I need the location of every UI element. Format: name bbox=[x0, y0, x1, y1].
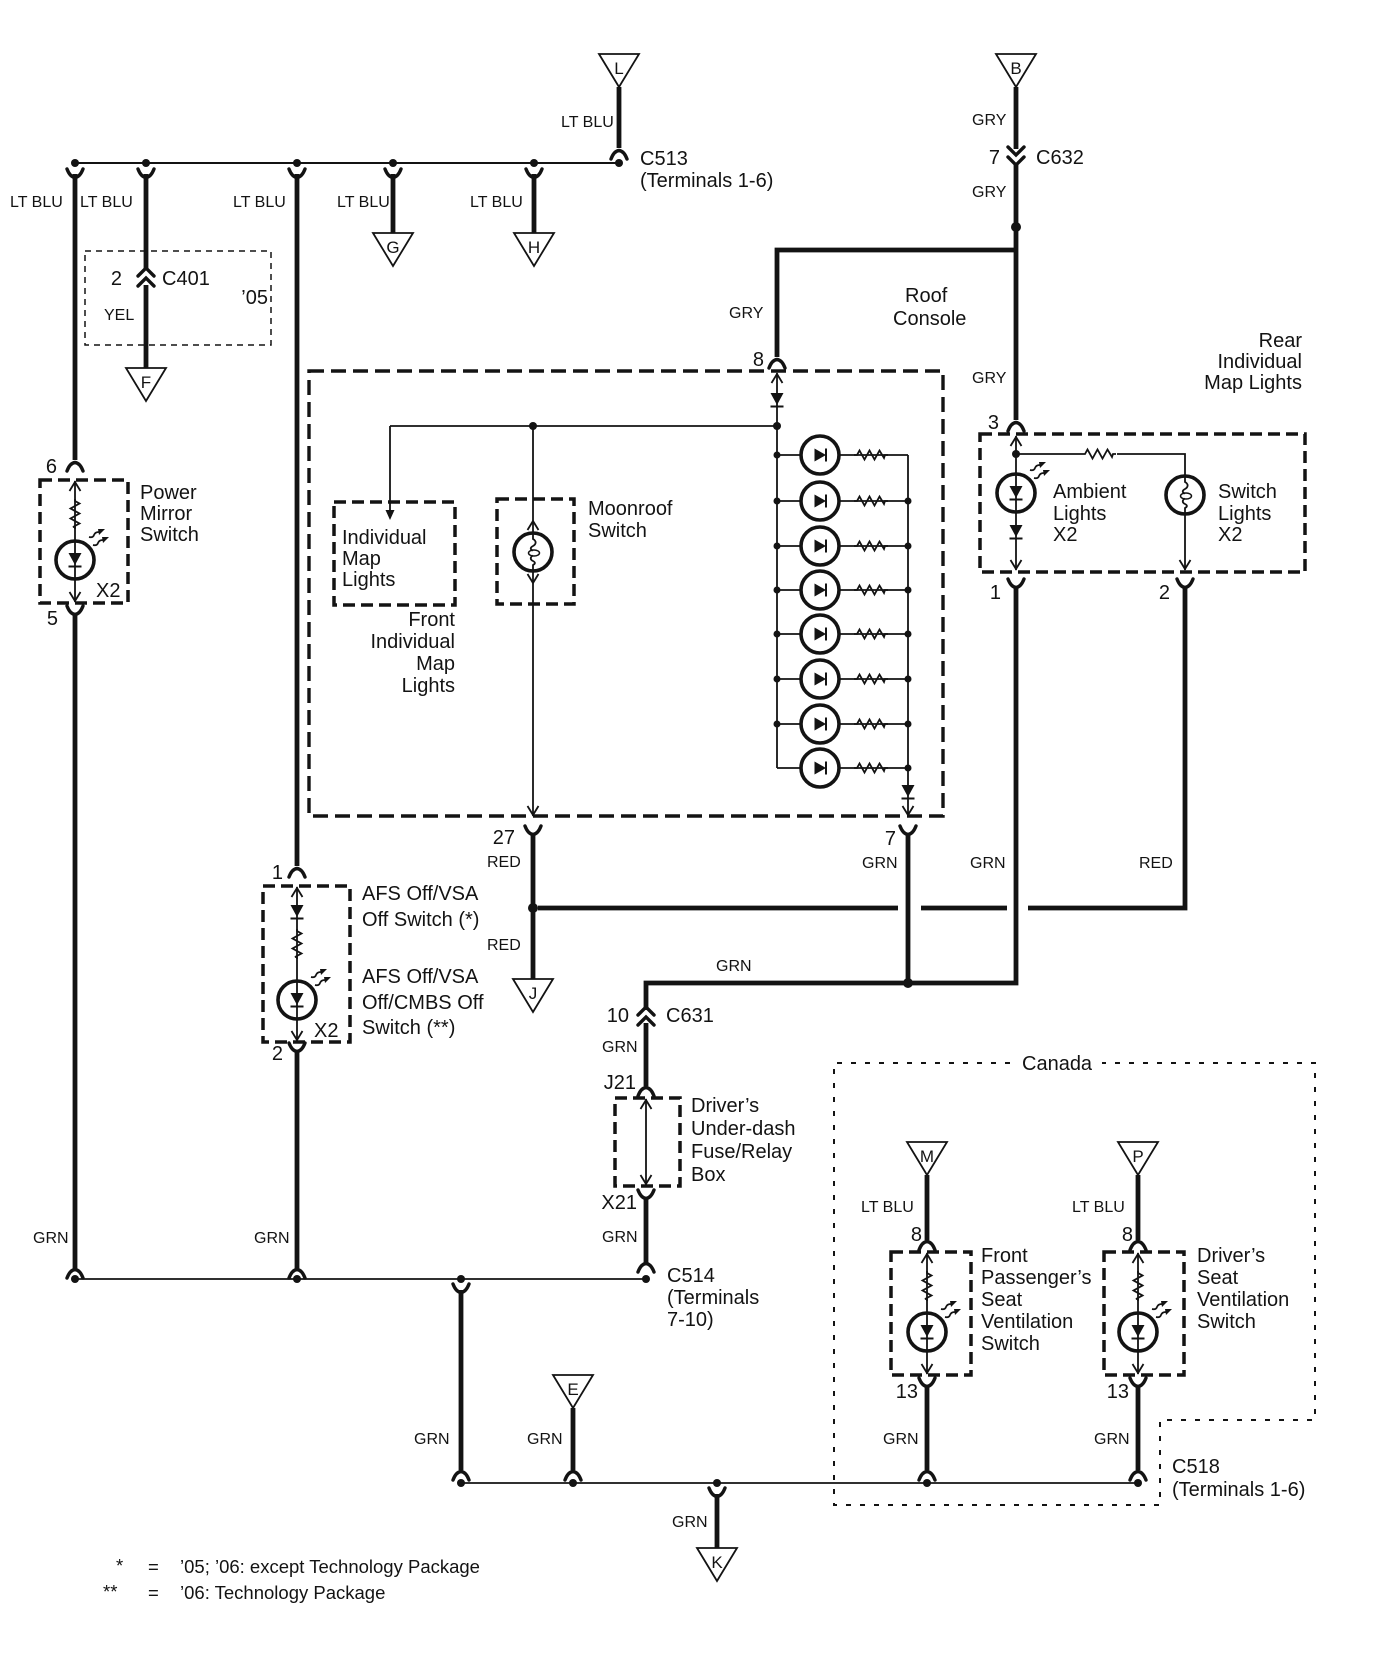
svg-text:=: = bbox=[148, 1556, 159, 1577]
wire: moonroof switch internal wire bbox=[532, 426, 534, 816]
svg-text:Seat: Seat bbox=[1197, 1267, 1239, 1289]
svg-text:GRY: GRY bbox=[972, 184, 1007, 201]
label: C518 (Terminals 1-6) bbox=[1172, 1456, 1305, 1501]
diode below ambient LED bbox=[1010, 525, 1023, 539]
svg-text:K: K bbox=[711, 1553, 723, 1572]
svg-text:5: 5 bbox=[47, 608, 58, 630]
arrowhead: moonroof wire exits roof console bbox=[528, 806, 539, 815]
diode at bottom of LED right bus bbox=[902, 785, 915, 799]
label: LT BLU (x393) bbox=[337, 194, 390, 211]
svg-text:Lights: Lights bbox=[402, 675, 455, 697]
svg-text:(Terminals: (Terminals bbox=[667, 1287, 759, 1309]
wire: C518 bus line bbox=[461, 1482, 1140, 1484]
wire: internal feed line to map lights and moonroof bbox=[390, 422, 781, 430]
connector C632 inline bbox=[989, 147, 1084, 169]
svg-text:E: E bbox=[567, 1380, 578, 1399]
svg-text:LT BLU: LT BLU bbox=[10, 194, 63, 211]
label: X21 bbox=[601, 1192, 637, 1214]
svg-text:Switch: Switch bbox=[1218, 481, 1277, 503]
svg-text:7-10): 7-10) bbox=[667, 1309, 714, 1331]
label: Driver's Seat Ventilation Switch bbox=[1197, 1245, 1289, 1333]
svg-text:10: 10 bbox=[607, 1005, 629, 1027]
label: GRY (above C632) bbox=[972, 112, 1007, 129]
wire: LT BLU from P to driver's seat switch pin 8 bbox=[1130, 1175, 1146, 1250]
svg-text:GRN: GRN bbox=[527, 1431, 563, 1448]
component: AFS Off/VSA Off switch box bbox=[263, 869, 350, 1043]
wire: LT BLU drop to H bbox=[526, 169, 542, 236]
svg-text:GRN: GRN bbox=[883, 1431, 919, 1448]
connector triangle P bbox=[1118, 1142, 1158, 1175]
connector triangle G bbox=[373, 233, 413, 266]
svg-text:G: G bbox=[386, 238, 399, 257]
svg-text:RED: RED bbox=[1139, 855, 1173, 872]
svg-text:Under-dash: Under-dash bbox=[691, 1118, 796, 1140]
svg-text:F: F bbox=[141, 373, 151, 392]
label: Front Passenger's Seat Ventilation Switch bbox=[981, 1245, 1091, 1355]
label: pin 13 (M) bbox=[896, 1381, 918, 1403]
wire: LT BLU drop to G bbox=[385, 169, 401, 236]
component: Roof Console dashed box bbox=[309, 371, 943, 816]
label: YEL bbox=[104, 307, 134, 324]
svg-text:2: 2 bbox=[272, 1043, 283, 1065]
label: pin 8 bbox=[753, 349, 764, 371]
LED array left bus bbox=[774, 426, 781, 768]
svg-text:Switch: Switch bbox=[981, 1333, 1040, 1355]
component: Moonroof Switch box bbox=[497, 499, 574, 604]
connector triangle F bbox=[126, 368, 166, 401]
label: RED (upper) bbox=[487, 854, 521, 871]
label: pin 8 (M) bbox=[911, 1224, 922, 1246]
wire: internal wire driver's seat switch bbox=[1133, 1253, 1144, 1374]
label: footnote * bbox=[116, 1555, 480, 1577]
svg-text:’06: Technology Package: ’06: Technology Package bbox=[180, 1582, 385, 1603]
label: LT BLU (L wire) bbox=[561, 114, 614, 131]
svg-text:Seat: Seat bbox=[981, 1289, 1023, 1311]
svg-text:H: H bbox=[528, 238, 540, 257]
svg-text:Console: Console bbox=[893, 308, 966, 330]
resistor in front passenger seat switch bbox=[923, 1271, 932, 1301]
svg-text:Roof: Roof bbox=[905, 285, 948, 307]
svg-text:GRN: GRN bbox=[414, 1431, 450, 1448]
wire: GRN from driver's switch to C518 bus bbox=[1130, 1378, 1146, 1480]
label: GRN (P drop) bbox=[1094, 1431, 1130, 1448]
svg-text:C514: C514 bbox=[667, 1265, 715, 1287]
dashed box: '05 note around C401 bbox=[85, 251, 271, 345]
connector triangle B bbox=[996, 54, 1036, 87]
svg-text:Box: Box bbox=[691, 1164, 725, 1186]
svg-text:GRN: GRN bbox=[602, 1039, 638, 1056]
LED row 4 bbox=[777, 571, 908, 609]
svg-text:Switch: Switch bbox=[588, 520, 647, 542]
component: Driver's Seat Ventilation Switch box bbox=[1104, 1252, 1184, 1375]
label: GRN (x1016 wire) bbox=[970, 855, 1006, 872]
svg-text:GRN: GRN bbox=[716, 958, 752, 975]
wire: RED horizontal line to rear pin 2 bbox=[538, 906, 1007, 911]
LED in AFS switch bbox=[278, 969, 331, 1019]
resistor in driver's seat switch bbox=[1134, 1271, 1143, 1301]
wire: C514 bus line bbox=[75, 1278, 646, 1280]
LED row 2 bbox=[777, 482, 908, 520]
svg-text:X2: X2 bbox=[96, 580, 120, 602]
svg-text:C513: C513 bbox=[640, 148, 688, 170]
wire: internal wire front passenger seat switch bbox=[922, 1253, 933, 1374]
svg-text:Moonroof: Moonroof bbox=[588, 498, 673, 520]
resistor in rear map lights bbox=[1082, 448, 1117, 460]
moonroof switch contact chevrons bbox=[528, 521, 539, 583]
svg-text:GRY: GRY bbox=[972, 112, 1007, 129]
svg-text:27: 27 bbox=[493, 827, 515, 849]
wire: GRY branch to roof console pin 8 bbox=[769, 250, 1016, 368]
label: pin 1 (AFS) bbox=[272, 862, 283, 884]
wire: LT BLU drop to Power Mirror Switch pin 6 bbox=[67, 169, 83, 460]
dashed box: Canada region bbox=[834, 1063, 1315, 1505]
svg-text:Front: Front bbox=[408, 609, 455, 631]
svg-text:LT BLU: LT BLU bbox=[80, 194, 133, 211]
svg-text:Ambient: Ambient bbox=[1053, 481, 1127, 503]
svg-text:Lights: Lights bbox=[342, 569, 395, 591]
svg-text:Fuse/Relay: Fuse/Relay bbox=[691, 1141, 792, 1163]
label: pin 2 (rear) bbox=[1159, 582, 1170, 604]
svg-text:AFS Off/VSA: AFS Off/VSA bbox=[362, 966, 479, 988]
svg-text:L: L bbox=[614, 59, 623, 78]
LED array right bus bbox=[905, 455, 912, 816]
svg-text:Individual: Individual bbox=[342, 527, 427, 549]
svg-text:X21: X21 bbox=[601, 1192, 637, 1214]
svg-text:LT BLU: LT BLU bbox=[233, 194, 286, 211]
label: GRN (x461) bbox=[414, 1431, 450, 1448]
svg-text:=: = bbox=[148, 1582, 159, 1603]
label: AFS Off/VSA Off Switch (*) bbox=[362, 883, 479, 931]
svg-text:AFS Off/VSA: AFS Off/VSA bbox=[362, 883, 479, 905]
svg-text:2: 2 bbox=[111, 268, 122, 290]
svg-text:8: 8 bbox=[1122, 1224, 1133, 1246]
wire: LT BLU from M to seat switch pin 8 bbox=[919, 1175, 935, 1250]
label: '05 bbox=[241, 287, 268, 309]
lamp in moonroof switch bbox=[514, 533, 552, 571]
label: Individual Map Lights bbox=[342, 527, 427, 591]
component: Front Passenger's Seat Ventilation Switch box bbox=[891, 1252, 971, 1375]
wire: GRN from pin 5 down to C514 bus bbox=[67, 606, 83, 1278]
svg-text:8: 8 bbox=[911, 1224, 922, 1246]
svg-text:RED: RED bbox=[487, 854, 521, 871]
svg-text:(Terminals 1-6): (Terminals 1-6) bbox=[640, 170, 773, 192]
wire: GRN from AFS pin 2 to C514 bus bbox=[289, 1043, 305, 1278]
component: Driver's Under-dash Fuse/Relay Box bbox=[615, 1098, 680, 1186]
svg-text:GRN: GRN bbox=[672, 1514, 708, 1531]
wire: YEL from C401 to F bbox=[144, 285, 149, 370]
svg-text:1: 1 bbox=[272, 862, 283, 884]
svg-text:7: 7 bbox=[989, 147, 1000, 169]
label: GRN (above bus) bbox=[716, 958, 752, 975]
label: Driver's Under-dash Fuse/Relay Box bbox=[691, 1095, 796, 1186]
node: junction on RED wire bbox=[528, 903, 538, 913]
LED row 3 bbox=[777, 527, 908, 565]
label: AFS Off/VSA Off/CMBS Off Switch (**) bbox=[362, 966, 484, 1039]
label: Power Mirror Switch bbox=[140, 482, 199, 546]
svg-text:GRY: GRY bbox=[729, 305, 764, 322]
svg-text:Passenger’s: Passenger’s bbox=[981, 1267, 1091, 1289]
svg-text:LT BLU: LT BLU bbox=[1072, 1199, 1125, 1216]
svg-text:13: 13 bbox=[896, 1381, 918, 1403]
svg-text:Off/CMBS Off: Off/CMBS Off bbox=[362, 992, 484, 1014]
wire: fuse box internal wire bbox=[641, 1099, 652, 1185]
label: Ambient Lights X2 bbox=[1053, 481, 1127, 546]
label: footnote ** bbox=[103, 1581, 385, 1603]
label: Front Individual Map Lights bbox=[370, 609, 455, 697]
label: Canada bbox=[1022, 1053, 1093, 1075]
svg-text:’05: ’05 bbox=[241, 287, 268, 309]
label: GRN (below C631) bbox=[602, 1039, 638, 1056]
wire: internal wire of AFS switch bbox=[292, 887, 303, 1041]
label: Switch Lights X2 bbox=[1218, 481, 1277, 546]
label: GRN (X21 wire) bbox=[602, 1229, 638, 1246]
wire: RED from rear pin 2 down to RED line bbox=[1028, 579, 1193, 908]
label: GRY (pin3 wire) bbox=[972, 370, 1007, 387]
label: pin 27 bbox=[493, 827, 515, 849]
svg-text:C632: C632 bbox=[1036, 147, 1084, 169]
label: GRN (x75) bbox=[33, 1230, 69, 1247]
connector triangle M bbox=[907, 1142, 947, 1175]
LED row 7 bbox=[777, 705, 908, 743]
svg-text:GRN: GRN bbox=[602, 1229, 638, 1246]
svg-text:LT BLU: LT BLU bbox=[861, 1199, 914, 1216]
svg-text:GRN: GRN bbox=[1094, 1431, 1130, 1448]
svg-text:LT BLU: LT BLU bbox=[470, 194, 523, 211]
label: GRY (branch) bbox=[729, 305, 764, 322]
label: LT BLU (x146) bbox=[80, 194, 133, 211]
svg-text:3: 3 bbox=[988, 412, 999, 434]
svg-text:Map Lights: Map Lights bbox=[1204, 372, 1302, 394]
label: pin 7 (roof) bbox=[885, 828, 896, 850]
connector triangle H bbox=[514, 233, 554, 266]
LED ambient lights bbox=[997, 462, 1050, 512]
wire: GRY from C632 down to rear map lights pin 3 bbox=[1008, 164, 1024, 431]
svg-text:X2: X2 bbox=[1218, 524, 1242, 546]
node: junction GRN bus bbox=[903, 978, 913, 988]
wire: internal wire of power mirror switch bbox=[70, 481, 81, 602]
svg-text:Switch (**): Switch (**) bbox=[362, 1017, 455, 1039]
connector triangle K bbox=[697, 1548, 737, 1581]
wire: LT BLU drop to C401 bbox=[138, 169, 154, 270]
label: RED (lower) bbox=[487, 937, 521, 954]
label: pin 6 bbox=[46, 456, 57, 478]
svg-text:Lights: Lights bbox=[1053, 503, 1106, 525]
wire: arrow feed into individual map lights bbox=[386, 426, 395, 520]
svg-text:Power: Power bbox=[140, 482, 197, 504]
arrowheads: rear lights wires exit box bbox=[1011, 560, 1191, 569]
LED row 8 bbox=[777, 749, 908, 787]
resistor in power mirror switch bbox=[71, 499, 80, 529]
svg-text:7: 7 bbox=[885, 828, 896, 850]
svg-text:Lights: Lights bbox=[1218, 503, 1271, 525]
label: LT BLU (x297) bbox=[233, 194, 286, 211]
node: junction dots on C513 bus bbox=[71, 159, 623, 167]
arrowhead: LED bus exits roof console bbox=[903, 806, 914, 815]
svg-text:8: 8 bbox=[753, 349, 764, 371]
label: pin 3 bbox=[988, 412, 999, 434]
wire: top LT BLU bus line C513 bbox=[75, 162, 619, 164]
svg-text:Front: Front bbox=[981, 1245, 1028, 1267]
connector C401 inline bbox=[111, 268, 210, 290]
svg-text:’05; ’06: except Technology Pa: ’05; ’06: except Technology Package bbox=[180, 1556, 480, 1577]
LED in front passenger seat switch bbox=[908, 1301, 961, 1351]
svg-text:Canada: Canada bbox=[1022, 1053, 1093, 1075]
svg-text:Rear: Rear bbox=[1259, 330, 1303, 352]
connector triangle J bbox=[513, 979, 553, 1012]
svg-text:Individual: Individual bbox=[1217, 351, 1302, 373]
label: X2 (AFS) bbox=[314, 1020, 338, 1042]
component: Rear Individual Map Lights box bbox=[980, 434, 1305, 572]
label: GRN (E wire) bbox=[527, 1431, 563, 1448]
label: GRY (below C632) bbox=[972, 184, 1007, 201]
lamp switch lights bbox=[1166, 476, 1204, 514]
label: pin 2 (AFS) bbox=[272, 1043, 283, 1065]
svg-text:**: ** bbox=[103, 1581, 117, 1602]
svg-text:GRY: GRY bbox=[972, 370, 1007, 387]
LED row 5 bbox=[777, 615, 908, 653]
wire: pin 8 feed inside roof console bbox=[772, 373, 783, 426]
label: C514 (Terminals 7-10) bbox=[667, 1265, 759, 1331]
wire: GRN from X21 to C514 bbox=[638, 1190, 654, 1272]
svg-text:GRN: GRN bbox=[970, 855, 1006, 872]
connector C631 inline bbox=[607, 1005, 714, 1027]
label: C513 (Terminals 1-6) bbox=[640, 148, 773, 192]
wire: GRN from E to C518 bus bbox=[565, 1408, 581, 1480]
svg-text:6: 6 bbox=[46, 456, 57, 478]
svg-text:1: 1 bbox=[990, 582, 1001, 604]
svg-text:C401: C401 bbox=[162, 268, 210, 290]
svg-text:P: P bbox=[1132, 1147, 1143, 1166]
wire: GRN bus to C631 corner bbox=[646, 983, 908, 1010]
LED row 1 bbox=[777, 436, 908, 474]
wire: GRN from C631 to J21 bbox=[638, 1023, 654, 1096]
svg-text:J: J bbox=[529, 984, 538, 1003]
node: dots on C518 bus bbox=[457, 1479, 1142, 1487]
label: LT BLU (x75) bbox=[10, 194, 63, 211]
component: Power Mirror Switch box bbox=[40, 463, 128, 604]
svg-text:X2: X2 bbox=[1053, 524, 1077, 546]
label: pin 5 bbox=[47, 608, 58, 630]
diode at roof console pin 8 feed bbox=[771, 393, 784, 407]
svg-text:YEL: YEL bbox=[104, 307, 134, 324]
wire: RED from roof console 27 down to J bbox=[525, 826, 541, 980]
svg-text:13: 13 bbox=[1107, 1381, 1129, 1403]
wire: GRY from B to C632 bbox=[1014, 87, 1019, 149]
label: LT BLU (x534) bbox=[470, 194, 523, 211]
label: GRN (M drop) bbox=[883, 1431, 919, 1448]
svg-text:LT BLU: LT BLU bbox=[337, 194, 390, 211]
svg-text:Off Switch (*): Off Switch (*) bbox=[362, 909, 479, 931]
component: Individual Map Lights box bbox=[334, 502, 455, 605]
svg-text:C518: C518 bbox=[1172, 1456, 1220, 1478]
resistor in AFS switch bbox=[293, 929, 302, 959]
wire: GRN drop from C514 bus to C518 bus bbox=[453, 1284, 469, 1480]
LED in driver's seat switch bbox=[1119, 1301, 1172, 1351]
label: J21 bbox=[604, 1072, 636, 1094]
svg-text:Individual: Individual bbox=[370, 631, 455, 653]
svg-text:*: * bbox=[116, 1555, 123, 1576]
label: RED (rear pin 2 wire) bbox=[1139, 855, 1173, 872]
label: GRN (x297) bbox=[254, 1230, 290, 1247]
svg-text:Driver’s: Driver’s bbox=[691, 1095, 759, 1117]
svg-text:B: B bbox=[1010, 59, 1021, 78]
svg-text:Map: Map bbox=[416, 653, 455, 675]
label: LT BLU (P wire) bbox=[1072, 1199, 1125, 1216]
svg-text:(Terminals 1-6): (Terminals 1-6) bbox=[1172, 1479, 1305, 1501]
svg-text:Switch: Switch bbox=[140, 524, 199, 546]
label: GRN (x908 wire) bbox=[862, 855, 898, 872]
label: Rear Individual Map Lights bbox=[1204, 330, 1302, 394]
svg-text:Driver’s: Driver’s bbox=[1197, 1245, 1265, 1267]
label: Moonroof Switch bbox=[588, 498, 673, 542]
label: pin 13 (P) bbox=[1107, 1381, 1129, 1403]
wire: LT BLU drop to AFS switch pin 1 bbox=[289, 169, 305, 866]
svg-text:X2: X2 bbox=[314, 1020, 338, 1042]
label: GRN (K wire) bbox=[672, 1514, 708, 1531]
svg-text:GRN: GRN bbox=[862, 855, 898, 872]
wire: LT BLU from L to C513 bbox=[611, 87, 627, 159]
svg-text:J21: J21 bbox=[604, 1072, 636, 1094]
svg-text:GRN: GRN bbox=[33, 1230, 69, 1247]
wire: branch to switch lights bbox=[1016, 454, 1185, 570]
svg-text:Map: Map bbox=[342, 548, 381, 570]
svg-text:Ventilation: Ventilation bbox=[1197, 1289, 1289, 1311]
node: dots on C514 bus bbox=[71, 1275, 650, 1283]
connector triangle E bbox=[553, 1375, 593, 1408]
label: pin 1 (rear) bbox=[990, 582, 1001, 604]
wire: GRN from front passenger switch to C518 bus bbox=[919, 1378, 935, 1480]
wire: GRN drop from C518 bus to K bbox=[709, 1488, 725, 1548]
LED row 6 bbox=[777, 660, 908, 698]
svg-text:RED: RED bbox=[487, 937, 521, 954]
label: Roof Console bbox=[893, 285, 966, 330]
label: pin 8 (P) bbox=[1122, 1224, 1133, 1246]
svg-text:Mirror: Mirror bbox=[140, 503, 193, 525]
wire: GRN from rear pin 1 down to GRN bus bbox=[908, 579, 1024, 983]
label: LT BLU (M wire) bbox=[861, 1199, 914, 1216]
node: junction at B branch bbox=[1011, 222, 1021, 232]
svg-text:GRN: GRN bbox=[254, 1230, 290, 1247]
diode in AFS switch bbox=[291, 905, 304, 919]
wire: rear map lights internal feed bbox=[1011, 436, 1022, 570]
svg-text:2: 2 bbox=[1159, 582, 1170, 604]
svg-text:Ventilation: Ventilation bbox=[981, 1311, 1073, 1333]
svg-text:M: M bbox=[920, 1147, 934, 1166]
label: X2 (power mirror) bbox=[96, 580, 120, 602]
wire: GRN from roof console 7 down to GRN bus bbox=[900, 826, 916, 983]
svg-text:LT BLU: LT BLU bbox=[561, 114, 614, 131]
connector triangle L bbox=[599, 54, 639, 87]
svg-text:Switch: Switch bbox=[1197, 1311, 1256, 1333]
svg-text:C631: C631 bbox=[666, 1005, 714, 1027]
LED in power mirror switch bbox=[56, 529, 109, 579]
